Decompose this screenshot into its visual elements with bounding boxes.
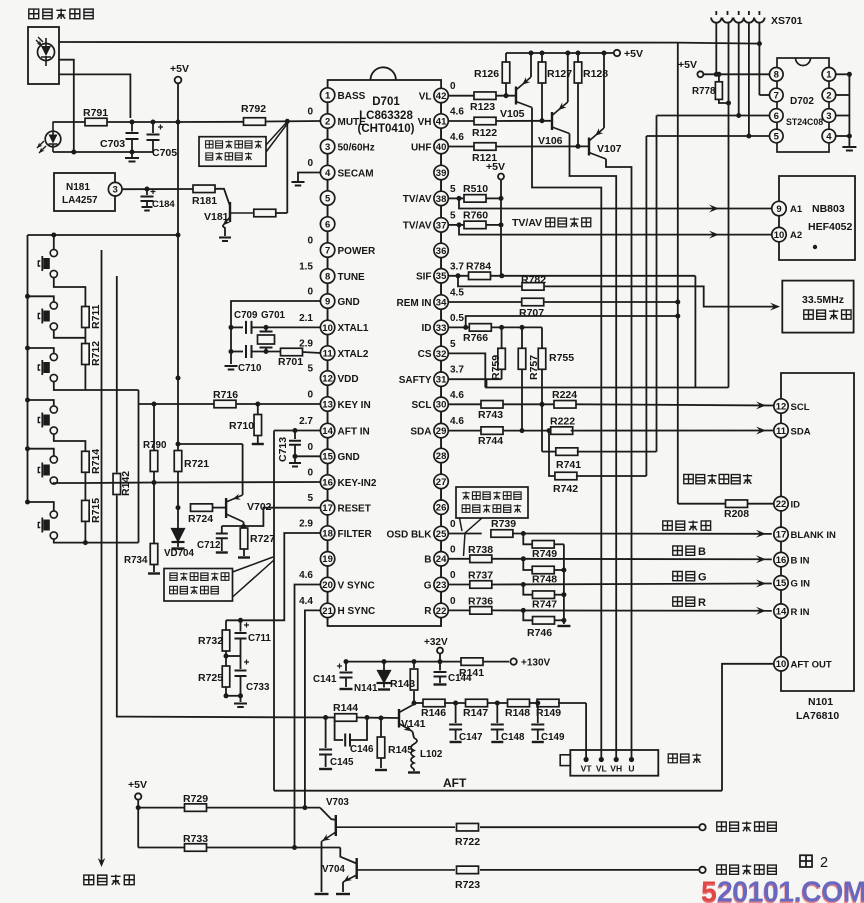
svg-text:5: 5: [450, 339, 456, 350]
pin 41 D701 VH: [440, 103, 442, 114]
svg-text:R784: R784: [466, 261, 491, 273]
pin 6 D702: [770, 109, 784, 123]
svg-text:VH: VH: [610, 764, 622, 774]
svg-text:R711: R711: [90, 304, 102, 329]
wire pin18 FILTER jog: [226, 533, 320, 620]
svg-text:R746: R746: [527, 627, 552, 639]
pin 28 D701: [440, 438, 442, 449]
svg-text:FILTER: FILTER: [338, 529, 373, 540]
wire SW3 bottom row / KEY-IN scan line: [54, 382, 139, 391]
svg-text:C705: C705: [152, 147, 177, 159]
svg-text:G: G: [698, 572, 707, 584]
svg-text:14: 14: [322, 426, 333, 437]
svg-text:R126: R126: [474, 68, 499, 80]
svg-text:UHF: UHF: [411, 142, 432, 153]
resistor R123: [474, 92, 496, 100]
resistor R748 ladder: [523, 559, 532, 570]
svg-text:20101.COM: 20101.COM: [717, 877, 864, 903]
svg-text:POWER: POWER: [338, 246, 377, 257]
svg-text:C703: C703: [100, 138, 125, 150]
wire TUNE column x=117: [116, 276, 118, 473]
resistor R736: [470, 607, 492, 615]
wire pin9 GND to crystal ground column: [231, 301, 320, 364]
wire feed to SW4: [25, 398, 30, 403]
wire pin24 B line: [448, 558, 470, 560]
key switch SW5: [50, 456, 57, 463]
svg-text:17: 17: [322, 503, 333, 514]
svg-text:R738: R738: [468, 544, 493, 556]
wire V105 collector VL line: [532, 108, 601, 760]
pin 22 D701 R: [440, 592, 442, 604]
svg-text:NB803: NB803: [812, 203, 845, 215]
wire +5V to D702 pin8: [703, 73, 769, 75]
wire R742 to D702 pin5 column: [576, 475, 647, 477]
wire to V703 base: [320, 808, 336, 820]
wire +32V rail y=661.6: [346, 661, 461, 663]
svg-text:VL: VL: [419, 91, 432, 102]
wire pin4 SECAM to ground: [298, 173, 320, 182]
svg-text:L102: L102: [420, 749, 443, 760]
svg-text:4.6: 4.6: [299, 570, 313, 581]
wire SW6 bottom row to KEY-IN column: [54, 539, 139, 543]
svg-text:ID: ID: [791, 500, 801, 511]
wire pin29 SDA line: [448, 430, 481, 432]
svg-text:R737: R737: [468, 570, 493, 582]
pin 26 D701: [440, 489, 442, 500]
svg-text:R715: R715: [90, 498, 102, 523]
svg-text:1: 1: [325, 90, 331, 101]
pin 17 N101 BLANK IN: [774, 527, 788, 541]
arrows into N101 OSD pins: [756, 530, 766, 538]
wire D702 pin6 line: [657, 115, 770, 117]
svg-text:ST24C08: ST24C08: [786, 117, 823, 127]
wire R181 to V181 base: [215, 189, 231, 206]
wire XS701 line3: [738, 23, 740, 116]
wire pin14 AFT-IN: [274, 430, 320, 432]
wire +5V vertical rail x=178: [177, 83, 179, 122]
key switch SW1: [50, 249, 57, 256]
pin 9 D701 GND: [327, 283, 329, 294]
svg-text:24: 24: [436, 554, 447, 565]
svg-text:5: 5: [307, 493, 313, 504]
pin 2 D702 right: [822, 88, 836, 102]
wire SW1 bottom to R711: [54, 278, 86, 307]
svg-text:+130V: +130V: [521, 658, 551, 669]
wire V105 emitter to +5V rail: [530, 53, 532, 77]
pin 40 D701 UHF: [440, 128, 442, 139]
pin 14 N101 R IN: [774, 604, 788, 618]
pin 4 D702 right: [822, 129, 836, 143]
svg-text:3: 3: [113, 185, 118, 196]
svg-text:R748: R748: [532, 574, 557, 586]
svg-text:R743: R743: [478, 409, 503, 421]
svg-text:A2: A2: [790, 230, 802, 241]
svg-text:C711: C711: [248, 633, 271, 644]
svg-text:22: 22: [776, 499, 787, 510]
wire KEY-IN2 line: [85, 482, 154, 485]
capacitor C141 electrolytic: [344, 659, 349, 664]
svg-text:27: 27: [436, 477, 447, 488]
node mid RC filter: [225, 651, 227, 666]
arrow into 33.5MHz box: [770, 303, 780, 311]
svg-text:0: 0: [450, 596, 456, 607]
capacitor C712: [222, 525, 244, 527]
capacitor C703: [131, 122, 133, 132]
terminal 行逆程输入: [699, 824, 705, 830]
IC N101 left edge segments: [780, 413, 782, 423]
wire R790 bottom to KEY-IN2 line: [153, 472, 155, 483]
svg-text:R742: R742: [553, 483, 578, 495]
IC N181 LA4257 box: [54, 173, 115, 211]
svg-text:R723: R723: [455, 879, 480, 891]
svg-text:0: 0: [307, 107, 313, 118]
svg-text:BASS: BASS: [338, 91, 366, 102]
wire feed to SW6: [25, 500, 30, 505]
pin 15 D701 GND: [327, 438, 329, 449]
wire R741 to D702 pin6 column: [577, 451, 657, 453]
resistor R723: [457, 866, 479, 874]
svg-text:LA4257: LA4257: [62, 195, 98, 206]
pin 12 N101 SCL: [774, 399, 788, 413]
node R732 top: [238, 618, 243, 623]
svg-text:B: B: [698, 546, 706, 558]
capacitor C144: [439, 662, 441, 671]
svg-text:16: 16: [322, 477, 333, 488]
node V141 collector: [412, 701, 417, 706]
svg-text:4: 4: [325, 168, 331, 179]
pin 14 D701 AFT IN: [327, 411, 329, 423]
wire standby control column from POWER: [101, 250, 103, 862]
wire +5V column x=501: [500, 180, 502, 276]
wire R782 to 33.5MHz trap: [544, 286, 778, 306]
svg-text:1.5: 1.5: [299, 262, 313, 273]
wire R142 down to AFT base line: [117, 496, 118, 717]
svg-text:0: 0: [450, 544, 456, 555]
wire D702 pin5 column down to R742: [645, 136, 647, 476]
svg-text:33: 33: [436, 323, 447, 334]
resistor R757: [521, 327, 523, 347]
wire to V704 base: [340, 848, 356, 864]
IC D701 body: [328, 80, 442, 626]
resistor R729: [138, 807, 185, 809]
svg-text:21: 21: [322, 606, 333, 617]
resistor R142: [113, 474, 121, 495]
wire KEY-IN column x=138.5: [138, 404, 140, 543]
pin 25 D701 OSD BLK: [440, 514, 442, 526]
svg-text:17: 17: [776, 530, 787, 541]
pin 3 of N181: [108, 182, 122, 196]
pin 4 D701 SECAM: [327, 154, 329, 166]
wire D702 pin 2 to right rail: [836, 94, 850, 96]
callout box: no-signal note (left): [164, 569, 233, 602]
resistor R738: [470, 555, 492, 563]
svg-text:V703: V703: [326, 797, 349, 808]
wire pin42 R123 line: [448, 95, 474, 97]
wire pin22 R line: [448, 609, 470, 611]
svg-text:R733: R733: [183, 833, 208, 845]
wire pin23 G line: [448, 584, 470, 586]
33.5MHz trap box: [782, 281, 853, 333]
svg-text:R722: R722: [455, 836, 480, 848]
svg-text:11: 11: [776, 426, 787, 437]
svg-text:4.4: 4.4: [299, 596, 313, 607]
callout leaders to AFT-IN column: [233, 557, 275, 597]
wire feed to SW1: [53, 235, 55, 250]
wire SCL to N101 pin12: [577, 404, 775, 405]
svg-text:H SYNC: H SYNC: [338, 606, 376, 617]
svg-text:R208: R208: [724, 508, 749, 520]
svg-text:14: 14: [776, 607, 787, 618]
svg-text:5: 5: [307, 364, 313, 375]
svg-text:+32V: +32V: [424, 637, 448, 648]
resistor R792: [244, 118, 266, 126]
svg-text:N101: N101: [808, 696, 833, 708]
tuner box 调谐器: [570, 750, 658, 776]
svg-text:12: 12: [776, 401, 787, 412]
wire V702 collector node: [243, 522, 245, 527]
resistor R739: [491, 530, 513, 538]
svg-text:R122: R122: [472, 127, 497, 139]
resistor R710: [257, 404, 259, 415]
svg-text:C184: C184: [152, 199, 175, 210]
IC N101 LA76810 box: [781, 373, 854, 691]
wire R757 bottom to SDA line: [521, 369, 523, 430]
svg-text:R148: R148: [505, 707, 530, 719]
svg-text:SECAM: SECAM: [338, 168, 374, 179]
capacitor C146: [335, 718, 343, 741]
pin 11 D701 XTAL2: [327, 335, 329, 346]
svg-text:SAFTY: SAFTY: [399, 375, 432, 386]
label 字符G: [673, 571, 682, 580]
svg-text:R749: R749: [532, 548, 557, 560]
resistor R224: [554, 401, 576, 409]
wire ID branch up to 316 line: [466, 316, 678, 327]
wire V704 emitter to ground: [342, 882, 344, 892]
svg-text:36: 36: [436, 246, 447, 257]
wire AFT-IN column down x=274: [273, 431, 275, 717]
wire V181 collector resistor to MUTE node: [276, 212, 287, 214]
wire D702 pin 4 to right rail: [836, 135, 850, 137]
resistor R741: [541, 404, 543, 451]
svg-text:B: B: [424, 555, 431, 566]
wire V702 emitter feed line y=444: [178, 443, 243, 445]
resistor R146: [423, 699, 445, 707]
pin 7 D702: [770, 88, 784, 102]
svg-text:7: 7: [325, 245, 330, 256]
pin 32 D701 CS: [440, 335, 442, 347]
svg-text:CS: CS: [418, 349, 432, 360]
svg-text:C146: C146: [350, 744, 374, 755]
svg-text:42: 42: [436, 91, 447, 102]
capacitor C147: [455, 703, 457, 723]
resistor R791: [85, 118, 107, 126]
svg-text:2: 2: [820, 855, 828, 871]
wire AFT base line y=716.6: [118, 716, 335, 719]
pin 10 NB803 A2: [772, 227, 786, 241]
svg-text:R724: R724: [188, 513, 213, 525]
resistor R749 ladder: [523, 534, 532, 545]
svg-text:GND: GND: [338, 297, 360, 308]
svg-text:GND: GND: [338, 452, 360, 463]
wire pin38 branch to NB803 A1: [459, 198, 772, 208]
resistor R147: [466, 699, 488, 707]
svg-text:SCL: SCL: [412, 400, 432, 411]
svg-text:23: 23: [436, 580, 447, 591]
wire KEY-IN2 row junction: [84, 472, 86, 500]
IR receiver box: [28, 27, 59, 84]
svg-text:7: 7: [774, 90, 779, 101]
capacitor C184: [145, 187, 150, 192]
node MUTE junction: [285, 119, 290, 124]
capacitor C145: [325, 718, 327, 749]
wire D702 pin7: [759, 94, 769, 96]
svg-text:4: 4: [826, 131, 832, 142]
pin 20 D701 V SYNC: [327, 566, 329, 577]
wire V702 emitter up to 444 line: [242, 444, 244, 495]
pin 34 D701 REM IN: [440, 283, 442, 295]
pin 37 D701 TV/AV: [440, 206, 442, 218]
resistor R711: [82, 307, 90, 328]
wire XS701 line5: [758, 23, 760, 95]
pin 1 D701 BASS: [320, 88, 334, 102]
svg-text:N181: N181: [66, 182, 90, 193]
wire R755 bottom to SCL line: [541, 369, 543, 404]
wire R711-R712 junction row SW2: [54, 330, 86, 338]
diode N141 zener: [382, 659, 387, 664]
svg-text:V106: V106: [538, 135, 563, 147]
svg-text:VDD: VDD: [338, 374, 359, 385]
svg-text:R721: R721: [184, 458, 209, 470]
svg-text:10: 10: [774, 230, 785, 241]
svg-text:31: 31: [436, 375, 447, 386]
pin 5 D702: [770, 129, 784, 143]
wire pin41 R122 line: [448, 120, 474, 122]
pin 7 D701 POWER: [327, 231, 329, 243]
callout leader legs to pins 25/24 lines: [460, 518, 483, 556]
svg-text:4.6: 4.6: [450, 132, 464, 143]
svg-text:N141: N141: [354, 683, 378, 694]
resistor R759: [501, 327, 503, 347]
pin 21 D701 H SYNC: [327, 592, 329, 604]
wire D702 pin 1 to right rail: [836, 73, 850, 75]
wire pin34 REM-IN line: [448, 301, 522, 303]
resistor R701: [281, 348, 303, 356]
svg-text:R712: R712: [90, 341, 102, 366]
svg-text:0: 0: [307, 442, 313, 453]
svg-text:RESET: RESET: [338, 504, 371, 515]
wire IR box second pin to C703 node: [59, 74, 130, 118]
pin 9 NB803 A1: [772, 201, 786, 215]
resistor R746 ladder: [523, 610, 533, 620]
svg-text:25: 25: [436, 529, 447, 540]
svg-text:R224: R224: [552, 389, 577, 401]
svg-text:C148: C148: [501, 732, 525, 743]
svg-text:15: 15: [776, 578, 787, 589]
wire V106 emitter to +5V rail: [567, 53, 569, 102]
resistor R208: [678, 503, 726, 505]
svg-text:R732: R732: [198, 635, 223, 647]
resistor R737: [470, 581, 492, 589]
svg-text:41: 41: [436, 116, 447, 127]
svg-text:LC863328: LC863328: [359, 110, 413, 122]
resistor R747 ladder: [523, 585, 533, 595]
svg-text:10: 10: [322, 323, 333, 334]
svg-text:10: 10: [776, 659, 787, 670]
svg-text:TV/AV: TV/AV: [403, 194, 432, 205]
IC D702 ST24C08 body: [777, 58, 829, 152]
svg-text:2.1: 2.1: [299, 313, 313, 324]
svg-text:R790: R790: [143, 440, 167, 451]
ground D702 rail: [842, 147, 856, 151]
capacitor C148: [496, 703, 498, 723]
svg-text:0: 0: [307, 158, 313, 169]
wire pin38 TV/AV: [448, 197, 464, 199]
svg-text:40: 40: [436, 142, 447, 153]
wire IR/ID bus column x=677.8: [677, 43, 679, 504]
wire feed to SW3: [25, 346, 30, 351]
pin 5 D701: [327, 180, 329, 191]
svg-text:D702: D702: [790, 96, 814, 107]
svg-text:R714: R714: [90, 449, 102, 474]
svg-text:R725: R725: [198, 672, 223, 684]
resistor R743: [481, 401, 503, 409]
key switch SW6: [50, 511, 57, 518]
pin 16 N101 B IN: [774, 552, 788, 566]
svg-text:3: 3: [826, 111, 831, 122]
svg-text:C709: C709: [234, 310, 258, 321]
wire SDA to N101 pin11: [571, 430, 774, 432]
wire pin32 CS jog: [448, 353, 485, 387]
resistor R733: [138, 847, 185, 849]
resistor R127: [541, 53, 543, 62]
pin 13 D701 KEY IN: [327, 385, 329, 397]
svg-text:V704: V704: [322, 864, 345, 875]
wire R721 bottom to R724 node: [177, 472, 179, 508]
wire pin37 TV/AV: [448, 224, 464, 226]
pin 6 D701: [327, 205, 329, 217]
svg-text:R782: R782: [521, 274, 546, 286]
resistor R744: [481, 427, 503, 435]
wire RESET jog from pin17: [244, 508, 321, 526]
svg-text:C733: C733: [246, 682, 270, 693]
wire pin31 SAFTY to R759 bottom: [448, 378, 501, 380]
svg-text:3.7: 3.7: [450, 365, 464, 376]
svg-text:R792: R792: [241, 103, 266, 115]
svg-text:V141: V141: [401, 718, 426, 730]
pin 8 D701 TUNE: [327, 257, 329, 269]
ground of crystal caps: [225, 366, 238, 370]
svg-text:6: 6: [774, 111, 779, 122]
wire N181 pin3 to R181: [122, 188, 194, 190]
pin 19 D701: [327, 540, 329, 551]
svg-text:R727: R727: [250, 533, 275, 545]
svg-text:VL: VL: [596, 764, 607, 774]
wire SIF branch R782: [458, 276, 522, 287]
pin 11 N101 SDA: [774, 423, 788, 437]
svg-text:R744: R744: [478, 435, 503, 447]
svg-text:VT: VT: [581, 764, 593, 774]
wire pin30 SCL line: [448, 403, 481, 405]
resistor R145: [379, 716, 384, 721]
resistor R222: [551, 427, 573, 435]
svg-text:+5V: +5V: [170, 63, 189, 75]
svg-text:R145: R145: [388, 744, 413, 756]
wire pin35 SIF line: [448, 275, 468, 277]
svg-text:XTAL2: XTAL2: [338, 349, 369, 360]
svg-text:0: 0: [307, 287, 313, 298]
svg-text:R736: R736: [468, 596, 493, 608]
terminal 场逆程输入: [699, 867, 705, 873]
